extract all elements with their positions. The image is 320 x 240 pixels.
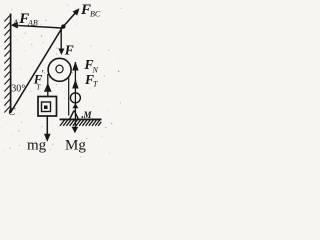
svg-text:A: A bbox=[12, 18, 18, 27]
svg-text:BC: BC bbox=[90, 10, 101, 19]
svg-text:′: ′ bbox=[42, 69, 44, 80]
svg-text:AB: AB bbox=[27, 19, 38, 28]
svg-text:mg: mg bbox=[27, 138, 47, 154]
svg-text:C: C bbox=[8, 107, 16, 118]
svg-text:M: M bbox=[83, 110, 93, 120]
svg-text:T: T bbox=[93, 80, 98, 89]
svg-text:Mg: Mg bbox=[65, 137, 86, 153]
svg-text:F: F bbox=[64, 42, 74, 57]
